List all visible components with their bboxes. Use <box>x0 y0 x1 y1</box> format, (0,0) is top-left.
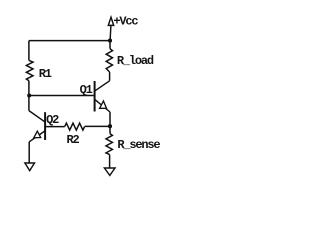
ground at R_sense <box>104 168 115 175</box>
wire node A to Q1 base <box>29 95 94 97</box>
wire node A down to Q2 collector <box>28 96 30 111</box>
wire R_sense to ground <box>109 155 111 168</box>
wire Vcc rail down to R_load <box>109 41 111 49</box>
wire Q1 emitter to node B <box>109 112 111 126</box>
node A junction dot <box>27 93 31 97</box>
wire left rail upper <box>28 41 30 61</box>
wire top rail <box>29 40 110 42</box>
wire Q2 base to R2 <box>46 126 65 128</box>
wire R1 to node A <box>28 81 30 96</box>
ground at Q2 emitter <box>25 163 35 171</box>
svg-text:R_sense: R_sense <box>117 138 160 152</box>
wire R2 to node B <box>85 125 110 127</box>
resistor R1 <box>26 60 33 80</box>
wire node B to R_sense <box>109 126 111 133</box>
svg-text:Q1: Q1 <box>80 83 93 97</box>
svg-text:Q2: Q2 <box>46 113 59 127</box>
svg-text:R2: R2 <box>67 133 80 147</box>
resistor R_sense <box>106 134 112 155</box>
wire Q2 emitter to ground <box>28 142 30 163</box>
resistor R_load <box>106 49 112 72</box>
transistor Q1 <box>95 81 110 112</box>
power symbol +Vcc <box>108 17 113 40</box>
resistor R2 <box>65 123 85 130</box>
svg-text:R1: R1 <box>39 67 52 81</box>
svg-text:+Vcc: +Vcc <box>113 15 138 29</box>
node B junction dot <box>108 124 112 128</box>
svg-text:R_load: R_load <box>117 54 154 68</box>
wire R_load to Q1 collector <box>109 72 111 81</box>
node Vcc junction <box>108 39 112 43</box>
transistor Q2 <box>29 111 45 142</box>
